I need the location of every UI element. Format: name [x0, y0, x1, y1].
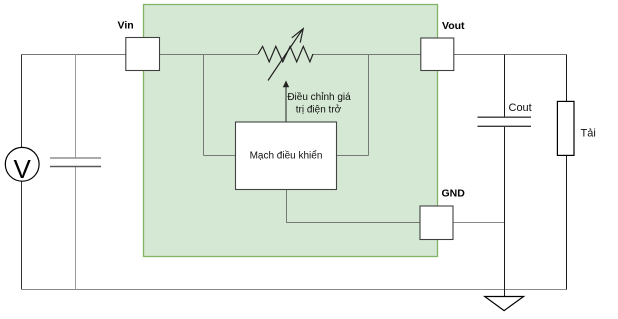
wire control right horizontal: [337, 155, 369, 157]
svg-text:Cout: Cout: [509, 102, 532, 114]
load resistor Tai: [557, 101, 595, 155]
wire GND to ground rail: [453, 222, 505, 224]
wire control left vertical: [203, 55, 205, 156]
wire control left horizontal: [204, 155, 236, 157]
capacitor Cin plates: [50, 158, 101, 167]
svg-text:Mạch điều khiển: Mạch điều khiển: [250, 150, 323, 162]
wire control right vertical: [368, 55, 370, 156]
wire source top: [21, 55, 23, 148]
control arrow up: [283, 81, 289, 123]
terminal GND: [420, 188, 465, 240]
capacitor Cout plates: [478, 102, 532, 126]
wire input cap bottom: [75, 167, 77, 290]
potentiometer R1 zigzag: [258, 46, 313, 61]
svg-text:GND: GND: [442, 188, 466, 200]
wire Cout bottom to ground: [504, 126, 506, 297]
wire Cout top: [504, 55, 506, 118]
svg-text:Tải: Tải: [581, 128, 596, 140]
control circuit block U1: [236, 122, 337, 190]
wire control to GND: [287, 190, 421, 223]
wire load top: [566, 55, 568, 102]
regulator block (green region): [144, 5, 438, 257]
wire top bus left: [22, 54, 259, 56]
potentiometer wiper arrow: [268, 29, 303, 81]
label adjust resistance: [287, 91, 351, 116]
svg-text:trị điện trở: trị điện trở: [296, 104, 342, 116]
wire bottom bus: [22, 289, 567, 291]
wire top bus right: [313, 54, 567, 56]
wire load bottom: [566, 155, 568, 289]
svg-text:Vout: Vout: [442, 20, 465, 32]
svg-text:Vin: Vin: [118, 20, 134, 32]
ground symbol: [485, 297, 524, 311]
terminal Vout: [421, 20, 465, 71]
terminal Vin: [118, 20, 160, 71]
svg-text:Điều chỉnh giá: Điều chỉnh giá: [287, 91, 351, 103]
voltage source V: [5, 147, 39, 184]
wire input cap top: [75, 54, 77, 158]
svg-text:V: V: [14, 154, 32, 184]
wire source bottom: [21, 181, 23, 290]
